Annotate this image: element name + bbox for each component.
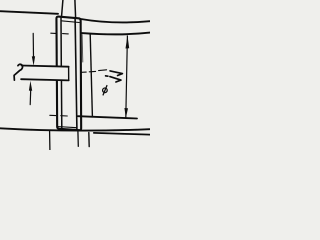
pin bottom edge: [21, 79, 69, 80]
faint edge right of disc: [81, 35, 84, 63]
arrowhead dim11 bottom (points down): [124, 108, 128, 118]
cylinder end-face vertical edge: [90, 34, 92, 116]
label 11: first digit (rotated): [110, 71, 122, 76]
hidden line dashes upper (left of disc): [51, 32, 69, 35]
centerline dash-dot of cylinder: [81, 70, 106, 73]
long bottom crop line: [0, 128, 150, 130]
label diameter symbol (rotated): [103, 88, 108, 93]
disc body outline (side view rectangle): [56, 17, 81, 131]
pin right end face: [68, 67, 70, 81]
cylinder bottom edge line (right): [78, 116, 137, 118]
arrowhead dim2 lower (points up): [29, 81, 32, 91]
dimension 11: vertical dimension line: [126, 36, 128, 118]
wire below: middle vertical: [77, 131, 79, 147]
cylinder top edge line (right): [82, 33, 150, 35]
wire projection line upper-right (to cropped top view): [74, 0, 77, 18]
disc top chamfer line: [61, 21, 79, 23]
wire top-left horizontal edge line: [0, 11, 58, 14]
pin top edge: [22, 66, 69, 67]
arrowhead dim11 top (points up): [126, 36, 130, 49]
wire projection line upper-left (to cropped top view): [62, 0, 63, 17]
disc bottom chamfer line: [57, 127, 77, 128]
paper background: [0, 0, 150, 150]
hidden line dashes lower (left of disc): [50, 114, 68, 117]
label 2 (rotated): [14, 64, 22, 80]
wire below: left vertical: [49, 131, 51, 150]
arrowhead dim2 upper (points down): [32, 56, 35, 66]
wire below: right vertical: [88, 133, 90, 147]
shaft upper silhouette line (right): [81, 19, 150, 22]
bottom-right extra edge line: [94, 133, 150, 135]
dimension 2: lower leader line: [29, 90, 32, 105]
label 11: second digit (rotated): [106, 76, 121, 82]
disc inner-left edge line: [60, 18, 63, 129]
dimension 2: upper leader line: [32, 33, 34, 57]
disc inner-right edge line: [75, 18, 77, 129]
